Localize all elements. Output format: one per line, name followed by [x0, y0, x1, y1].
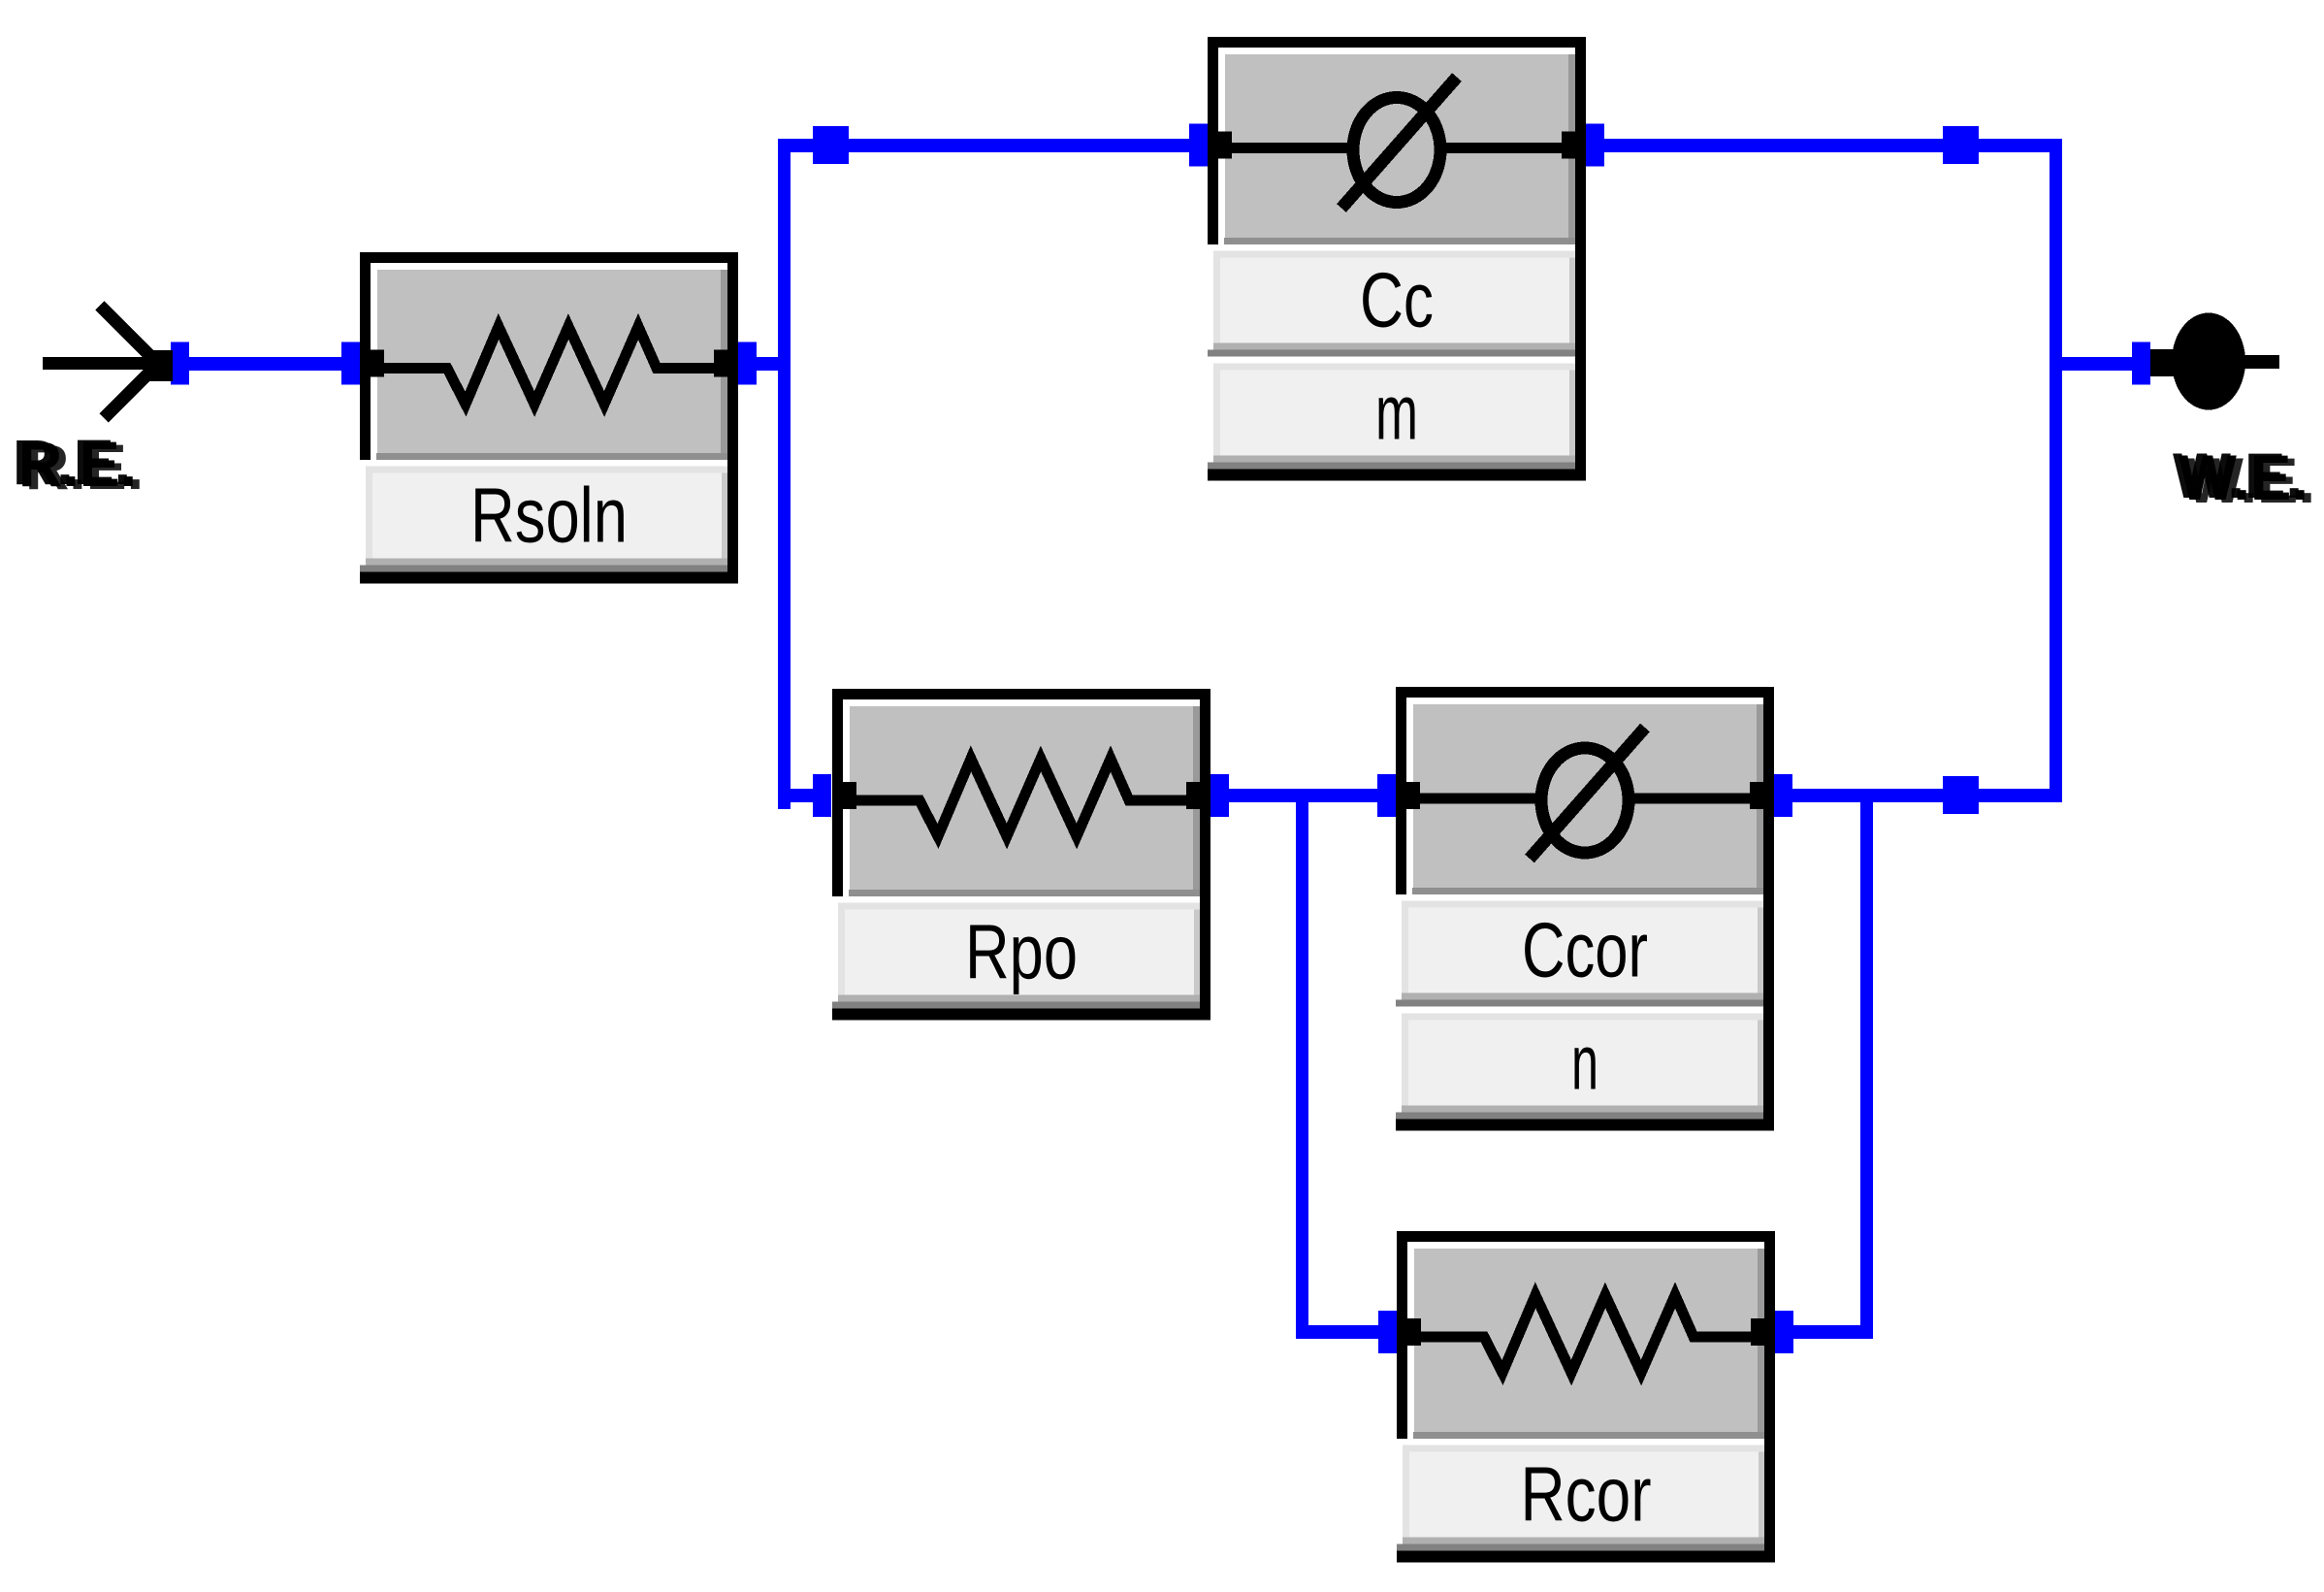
wire right riser	[2050, 139, 2062, 802]
node Rcor left port	[1378, 1311, 1397, 1353]
CPE Cc	[1208, 37, 1586, 481]
svg-text:Rpo: Rpo	[965, 909, 1078, 995]
node Ccor right port	[1774, 774, 1792, 817]
wire T riser to Rcor	[1296, 796, 1308, 1339]
junction node bottom-right	[1943, 776, 1979, 814]
label R.E.	[13, 426, 144, 503]
wire Rpo to Ccor	[1225, 789, 1380, 802]
svg-text:m: m	[1375, 370, 1418, 456]
wire Rsoln to left riser	[752, 357, 791, 371]
terminal W.E.	[2150, 313, 2279, 410]
wire Rcor to right riser	[1791, 1325, 1866, 1339]
wire Rcor right riser	[1860, 789, 1873, 1339]
resistor Rcor	[1397, 1231, 1775, 1563]
wire Ccor to right riser	[1789, 789, 2055, 802]
label W.E.	[2173, 439, 2315, 516]
junction node top-right	[1943, 126, 1979, 164]
node Cc left port	[1189, 124, 1208, 167]
node Ccor left port	[1377, 774, 1396, 817]
node Rsoln left port	[341, 342, 360, 385]
wire T corner to Rcor port	[1296, 1325, 1381, 1339]
wire top branch left	[778, 139, 1195, 152]
svg-text:Cc: Cc	[1360, 257, 1434, 343]
resistor Rpo	[832, 689, 1210, 1021]
svg-text:R.E.: R.E.	[18, 428, 137, 500]
CPE Ccor	[1396, 687, 1774, 1131]
node Rsoln right port	[738, 342, 757, 385]
junction node top-left	[813, 126, 849, 164]
svg-text:Ccor: Ccor	[1522, 907, 1648, 993]
node Rcor right port	[1775, 1311, 1793, 1353]
wire top branch right	[1600, 139, 2055, 152]
svg-text:Rsoln: Rsoln	[470, 472, 628, 559]
node W.E. port	[2132, 342, 2150, 385]
svg-text:Rcor: Rcor	[1521, 1451, 1652, 1538]
node Rpo left port	[813, 774, 831, 817]
node R.E. port	[171, 342, 189, 385]
svg-text:n: n	[1571, 1020, 1598, 1106]
wire R.E. to Rsoln	[184, 357, 344, 371]
wire corner to Rpo	[778, 789, 817, 802]
svg-text:W.E.: W.E.	[2179, 441, 2308, 513]
resistor Rsoln	[360, 252, 738, 584]
node Cc right port	[1586, 124, 1604, 167]
wire left riser	[778, 139, 791, 809]
node Rpo right port	[1210, 774, 1229, 817]
terminal R.E.	[43, 306, 173, 418]
wire riser to W.E.	[2061, 357, 2134, 371]
